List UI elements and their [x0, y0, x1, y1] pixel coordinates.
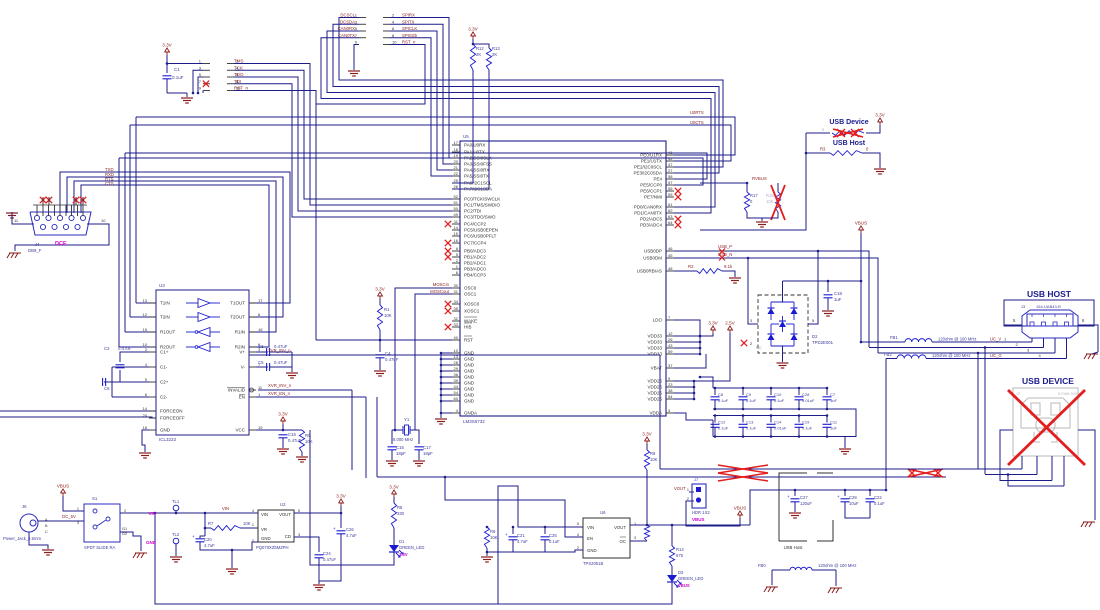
svg-text:GND: GND — [146, 540, 157, 545]
svg-text:10: 10 — [454, 348, 459, 353]
svg-text:49: 49 — [454, 212, 459, 217]
svg-text:14: 14 — [143, 406, 148, 411]
svg-text:120uF: 120uF — [800, 501, 812, 506]
svg-text:PE3/I2C0SDA: PE3/I2C0SDA — [633, 171, 662, 176]
svg-text:C28: C28 — [802, 392, 810, 397]
svg-text:10: 10 — [392, 40, 397, 45]
svg-text:R12: R12 — [476, 46, 484, 51]
svg-text:FORCEON: FORCEON — [160, 409, 183, 414]
svg-text:PA0/U0RX: PA0/U0RX — [464, 143, 485, 148]
svg-text:C13: C13 — [746, 420, 754, 425]
svg-text:18: 18 — [143, 425, 148, 430]
svg-text:PD1/CAN0TX: PD1/CAN0TX — [634, 211, 662, 216]
svg-text:XOSC1: XOSC1 — [464, 309, 480, 314]
svg-text:VOUT: VOUT — [674, 486, 686, 491]
svg-text:R6: R6 — [650, 451, 656, 456]
svg-text:VDD33: VDD33 — [647, 346, 662, 351]
svg-text:10K: 10K — [490, 535, 498, 540]
svg-text:17: 17 — [258, 298, 263, 303]
svg-text:12: 12 — [143, 312, 148, 317]
svg-text:22: 22 — [454, 171, 459, 176]
svg-text:U0RTS: U0RTS — [690, 110, 704, 115]
svg-text:C6: C6 — [104, 386, 110, 391]
svg-text:D3: D3 — [678, 570, 684, 575]
svg-text:VIN: VIN — [261, 512, 268, 517]
svg-text:0.1uF: 0.1uF — [802, 426, 813, 431]
svg-text:60: 60 — [454, 396, 459, 401]
svg-text:PB0/ADC3: PB0/ADC3 — [464, 249, 486, 254]
svg-text:VDD33: VDD33 — [647, 340, 662, 345]
svg-text:C17: C17 — [423, 445, 431, 450]
svg-text:C8: C8 — [718, 392, 724, 397]
svg-text:C22: C22 — [874, 495, 882, 500]
svg-text:PA2/SSI0CLK: PA2/SSI0CLK — [464, 156, 492, 161]
svg-text:+: + — [787, 494, 790, 499]
svg-text:0.1uF: 0.1uF — [172, 75, 184, 80]
svg-text:LDO: LDO — [653, 318, 663, 323]
svg-text:0.1uF: 0.1uF — [874, 501, 885, 506]
svg-text:GND: GND — [261, 536, 271, 541]
svg-text:21: 21 — [454, 165, 459, 170]
svg-text:26: 26 — [454, 184, 459, 189]
svg-text:C27: C27 — [800, 495, 808, 500]
svg-text:10K: 10K — [384, 313, 392, 318]
svg-text:U0CTS: U0CTS — [690, 120, 704, 125]
svg-text:32: 32 — [454, 316, 459, 321]
svg-text:T2OUT: T2OUT — [230, 315, 245, 320]
svg-text:330: 330 — [397, 511, 405, 516]
svg-text:UC_G: UC_G — [990, 353, 1002, 358]
svg-text:GND: GND — [587, 548, 597, 553]
svg-text:34: 34 — [454, 299, 459, 304]
svg-text:C20: C20 — [204, 537, 212, 542]
svg-text:10K: 10K — [243, 521, 251, 526]
svg-text:SPITX: SPITX — [402, 19, 415, 24]
svg-text:+: + — [333, 526, 336, 531]
svg-text:D2: D2 — [812, 334, 818, 339]
svg-text:GREEN_LED: GREEN_LED — [399, 545, 424, 550]
svg-text:120ohm @ 100 MHz: 120ohm @ 100 MHz — [932, 353, 970, 358]
svg-text:DCSCL: DCSCL — [340, 13, 355, 18]
svg-text:HDR 1X2: HDR 1X2 — [692, 510, 710, 515]
svg-text:4.7uF: 4.7uF — [204, 543, 215, 548]
svg-text:C21: C21 — [517, 533, 525, 538]
svg-text:19: 19 — [258, 425, 263, 430]
svg-text:28: 28 — [454, 360, 459, 365]
svg-text:C3: C3 — [258, 344, 264, 349]
svg-text:GND: GND — [464, 369, 475, 374]
svg-text:25: 25 — [454, 178, 459, 183]
svg-text:PB4/CCP3: PB4/CCP3 — [464, 273, 486, 278]
svg-text:GND: GND — [464, 363, 475, 368]
svg-text:GND: GND — [464, 357, 475, 362]
svg-text:PD0/CAN0RX: PD0/CAN0RX — [634, 205, 662, 210]
svg-text:R14: R14 — [676, 547, 684, 552]
svg-text:15: 15 — [143, 327, 148, 332]
svg-text:G1: G1 — [122, 527, 127, 531]
svg-text:TL2: TL2 — [172, 532, 180, 537]
svg-text:29: 29 — [454, 366, 459, 371]
svg-text:2K: 2K — [492, 52, 497, 57]
svg-text:1: 1 — [77, 507, 79, 511]
svg-text:PA3/SSI0FSS: PA3/SSI0FSS — [464, 162, 492, 167]
svg-text:USB HOST: USB HOST — [1027, 289, 1072, 299]
svg-text:SPISSb: SPISSb — [402, 33, 418, 38]
svg-text:PC7/CCP4: PC7/CCP4 — [464, 241, 487, 246]
svg-text:58: 58 — [668, 174, 673, 179]
svg-text:26: 26 — [668, 337, 673, 342]
svg-text:C7: C7 — [830, 392, 836, 397]
svg-text:2: 2 — [124, 509, 126, 513]
svg-text:GND: GND — [464, 393, 475, 398]
svg-text:VBUS: VBUS — [855, 221, 868, 226]
svg-text:TPD2E001: TPD2E001 — [812, 340, 834, 345]
svg-text:10: 10 — [101, 218, 106, 223]
svg-text:C26: C26 — [346, 527, 354, 532]
svg-text:VBUS: VBUS — [678, 583, 690, 588]
svg-text:2: 2 — [577, 546, 579, 550]
svg-text:U2: U2 — [280, 502, 286, 507]
svg-text:120ohm @ 100 MHz: 120ohm @ 100 MHz — [938, 337, 976, 342]
svg-text:DB9_F: DB9_F — [28, 248, 42, 253]
svg-text:27: 27 — [668, 168, 673, 173]
svg-text:R2: R2 — [688, 264, 694, 269]
svg-text:TDI: TDI — [234, 79, 241, 84]
svg-text:30: 30 — [454, 283, 459, 288]
svg-text:14: 14 — [454, 225, 459, 230]
svg-text:10K: 10K — [650, 457, 658, 462]
svg-text:PC2/TDI: PC2/TDI — [464, 209, 481, 214]
svg-text:GND: GND — [160, 428, 171, 433]
svg-text:61: 61 — [668, 202, 673, 207]
svg-text:VIN: VIN — [148, 511, 156, 516]
svg-text:PC0/TCK/SWCLK: PC0/TCK/SWCLK — [464, 197, 500, 202]
svg-text:3.3V: 3.3V — [399, 552, 408, 557]
svg-text:56: 56 — [668, 186, 673, 191]
svg-text:VDD33: VDD33 — [647, 334, 662, 339]
svg-text:31: 31 — [454, 289, 459, 294]
svg-text:3.3V: 3.3V — [708, 321, 718, 326]
svg-text:C12: C12 — [718, 420, 726, 425]
svg-text:62: 62 — [668, 208, 673, 213]
svg-text:VCC: VCC — [235, 428, 245, 433]
svg-text:VIN: VIN — [587, 525, 594, 530]
svg-text:U3: U3 — [159, 283, 165, 288]
svg-text:3: 3 — [634, 536, 636, 540]
svg-text:42: 42 — [668, 156, 673, 161]
svg-text:DC_5V: DC_5V — [62, 514, 76, 519]
svg-text:43: 43 — [668, 343, 673, 348]
svg-text:G2: G2 — [122, 532, 127, 536]
svg-text:T1OUT: T1OUT — [230, 301, 245, 306]
svg-text:C1: C1 — [174, 67, 180, 72]
svg-text:RST_n: RST_n — [234, 86, 249, 91]
svg-text:C24: C24 — [323, 551, 331, 556]
svg-text:5: 5 — [577, 522, 579, 526]
svg-text:PA5/SSI0TX: PA5/SSI0TX — [464, 174, 489, 179]
svg-text:3.3V: 3.3V — [375, 287, 385, 292]
svg-text:C5: C5 — [258, 360, 264, 365]
svg-text:PC5/USB0EPEN: PC5/USB0EPEN — [464, 228, 498, 233]
svg-text:XOSC0: XOSC0 — [464, 302, 480, 307]
svg-text:PE7/NMI: PE7/NMI — [644, 195, 662, 200]
svg-text:0.1uF: 0.1uF — [549, 539, 560, 544]
svg-text:4: 4 — [577, 533, 579, 537]
svg-text:GREEN_LED: GREEN_LED — [678, 576, 703, 581]
svg-text:CAN0TX: CAN0TX — [338, 33, 355, 38]
svg-text:UC_V: UC_V — [990, 337, 1001, 342]
svg-text:41: 41 — [668, 150, 673, 155]
svg-text:INVALID: INVALID — [228, 388, 246, 393]
svg-text:2.5V: 2.5V — [725, 321, 735, 326]
svg-text:PD2/ADC5: PD2/ADC5 — [640, 217, 663, 222]
svg-text:0.47uF: 0.47uF — [274, 360, 288, 365]
svg-text:5: 5 — [298, 509, 300, 513]
svg-text:USB Host: USB Host — [833, 140, 866, 147]
svg-text:SPIRX: SPIRX — [402, 13, 415, 18]
svg-text:GND: GND — [464, 399, 475, 404]
svg-text:40: 40 — [454, 335, 459, 340]
svg-text:PE1/U1TX: PE1/U1TX — [641, 159, 662, 164]
svg-text:C2: C2 — [104, 346, 110, 351]
svg-text:VOUT: VOUT — [279, 512, 291, 517]
svg-text:GNDA: GNDA — [464, 411, 477, 416]
svg-text:SPDT SLIDE RA: SPDT SLIDE RA — [84, 545, 116, 550]
svg-text:39: 39 — [454, 378, 459, 383]
svg-text:0.01uF: 0.01uF — [774, 426, 787, 431]
svg-text:EN: EN — [587, 536, 593, 541]
svg-text:TDO: TDO — [234, 72, 244, 77]
svg-text:3.3V: 3.3V — [162, 43, 172, 48]
svg-text:R1IN: R1IN — [235, 330, 245, 335]
svg-text:1uF: 1uF — [834, 297, 842, 302]
svg-text:35: 35 — [454, 306, 459, 311]
svg-text:OSC1: OSC1 — [464, 292, 477, 297]
svg-text:8.000 MHz: 8.000 MHz — [393, 437, 413, 442]
svg-text:J6: J6 — [22, 504, 27, 509]
svg-text:37: 37 — [668, 363, 673, 368]
svg-text:15: 15 — [454, 231, 459, 236]
svg-text:63: 63 — [668, 214, 673, 219]
svg-text:3.3V: 3.3V — [389, 485, 399, 490]
svg-text:Y1: Y1 — [404, 417, 410, 422]
svg-text:10K: 10K — [766, 199, 774, 204]
svg-text:S1: S1 — [92, 496, 98, 501]
svg-text:DCE: DCE — [55, 241, 67, 247]
svg-text:154-UAB43-R: 154-UAB43-R — [1036, 304, 1061, 309]
svg-text:R1OUT: R1OUT — [160, 330, 176, 335]
svg-text:C28: C28 — [849, 495, 857, 500]
svg-text:PA4/SSI0RX: PA4/SSI0RX — [464, 168, 489, 173]
svg-text:C1-: C1- — [160, 365, 168, 370]
svg-text:NC: NC — [756, 345, 762, 350]
svg-text:PD3/ADC4: PD3/ADC4 — [640, 223, 663, 228]
svg-text:16: 16 — [258, 327, 263, 332]
svg-text:USB DEVICE: USB DEVICE — [1022, 376, 1074, 386]
svg-text:52: 52 — [454, 194, 459, 199]
svg-text:PB2/ADC1: PB2/ADC1 — [464, 261, 486, 266]
svg-text:RVBUS: RVBUS — [752, 176, 767, 181]
svg-text:USB0RBIAS: USB0RBIAS — [637, 269, 662, 274]
svg-text:FB2: FB2 — [884, 352, 892, 357]
svg-text:XVR_INV_n: XVR_INV_n — [268, 383, 292, 388]
svg-text:TCK: TCK — [234, 65, 243, 70]
svg-text:4: 4 — [252, 509, 254, 513]
svg-text:C1+: C1+ — [160, 350, 169, 355]
svg-text:1uF: 1uF — [830, 398, 837, 403]
svg-text:U5: U5 — [463, 134, 469, 139]
svg-text:0.01uF: 0.01uF — [802, 398, 815, 403]
svg-text:Power_Jack_2.5mm: Power_Jack_2.5mm — [3, 536, 41, 541]
svg-text:C10: C10 — [774, 392, 782, 397]
svg-text:HIB: HIB — [464, 325, 472, 330]
svg-text:3.3V: 3.3V — [468, 27, 478, 32]
svg-text:DCSDA: DCSDA — [340, 19, 355, 24]
svg-text:R17: R17 — [750, 193, 758, 198]
svg-text:R9: R9 — [490, 529, 496, 534]
svg-text:C: C — [45, 530, 48, 534]
svg-text:20: 20 — [454, 159, 459, 164]
svg-text:PC3/TDO/SWO: PC3/TDO/SWO — [464, 215, 496, 220]
svg-text:SPICLK: SPICLK — [402, 26, 417, 31]
svg-text:67068-9000: 67068-9000 — [1058, 391, 1080, 396]
svg-text:ICL3223: ICL3223 — [159, 437, 177, 442]
svg-text:120ohm @ 100 MHz: 120ohm @ 100 MHz — [818, 563, 856, 568]
svg-text:44: 44 — [454, 384, 459, 389]
svg-text:57: 57 — [668, 180, 673, 185]
svg-text:OSC0: OSC0 — [464, 286, 477, 291]
svg-text:1: 1 — [252, 523, 254, 527]
svg-text:23: 23 — [668, 382, 673, 387]
svg-text:18pF: 18pF — [423, 451, 433, 456]
svg-text:MOSCout: MOSCout — [430, 289, 450, 294]
svg-text:0.47uF: 0.47uF — [385, 357, 399, 362]
svg-text:48: 48 — [668, 266, 673, 271]
svg-text:R8: R8 — [397, 505, 403, 510]
svg-text:3: 3 — [77, 521, 79, 525]
svg-text:VOUT: VOUT — [614, 525, 626, 530]
svg-text:36: 36 — [454, 372, 459, 377]
svg-text:CAN0RX: CAN0RX — [338, 26, 356, 31]
svg-text:VBUS: VBUS — [692, 517, 705, 522]
svg-text:T1IN: T1IN — [160, 301, 170, 306]
svg-text:C19: C19 — [802, 420, 810, 425]
svg-text:PE2/I2C0SCL: PE2/I2C0SCL — [634, 165, 663, 170]
svg-text:LM3S5732: LM3S5732 — [463, 419, 485, 424]
svg-text:VBUS: VBUS — [57, 484, 70, 489]
svg-text:C15: C15 — [288, 432, 296, 437]
svg-text:RST: RST — [464, 338, 473, 343]
svg-text:D1: D1 — [399, 539, 405, 544]
svg-text:VR: VR — [261, 527, 267, 532]
svg-text:R13: R13 — [492, 46, 500, 51]
svg-text:PC6/USB0PFLT: PC6/USB0PFLT — [464, 234, 497, 239]
svg-text:U6: U6 — [600, 510, 606, 515]
svg-text:54: 54 — [668, 394, 673, 399]
svg-text:GND: GND — [464, 387, 475, 392]
svg-text:R18: R18 — [766, 193, 774, 198]
svg-text:1: 1 — [687, 488, 689, 492]
svg-text:51: 51 — [454, 200, 459, 205]
svg-text:0.1uF: 0.1uF — [718, 426, 729, 431]
svg-text:VBUS: VBUS — [734, 506, 747, 511]
svg-text:PA1/U0TX: PA1/U0TX — [464, 150, 485, 155]
svg-text:4.7uF: 4.7uF — [346, 533, 357, 538]
svg-text:USB0DM: USB0DM — [643, 256, 662, 261]
svg-text:2: 2 — [687, 497, 689, 501]
svg-text:0: 0 — [822, 128, 824, 132]
svg-text:9.1k: 9.1k — [724, 264, 733, 269]
svg-text:PB3/ADC0: PB3/ADC0 — [464, 267, 486, 272]
svg-text:USB0DP: USB0DP — [644, 249, 662, 254]
svg-text:C16: C16 — [396, 445, 404, 450]
svg-text:EN: EN — [239, 395, 245, 400]
svg-text:XVR_INV_n: XVR_INV_n — [268, 348, 291, 353]
svg-text:17: 17 — [454, 140, 459, 145]
svg-text:46: 46 — [668, 246, 673, 251]
svg-text:TL1: TL1 — [172, 499, 180, 504]
svg-text:R1: R1 — [384, 307, 390, 312]
svg-text:PE5/CCP0: PE5/CCP0 — [640, 183, 662, 188]
svg-text:PB1/ADC2: PB1/ADC2 — [464, 255, 486, 260]
svg-text:18pF: 18pF — [396, 451, 406, 456]
svg-text:GND: GND — [464, 381, 475, 386]
svg-text:2K: 2K — [476, 52, 481, 57]
svg-text:R7: R7 — [208, 521, 214, 526]
svg-text:47: 47 — [668, 162, 673, 167]
svg-text:33: 33 — [454, 322, 459, 327]
svg-text:0.47uF: 0.47uF — [118, 346, 132, 351]
svg-text:C14: C14 — [774, 420, 782, 425]
svg-text:0.1uF: 0.1uF — [774, 398, 785, 403]
svg-text:USB Device: USB Device — [829, 119, 868, 126]
svg-text:+: + — [192, 534, 195, 539]
svg-text:OC: OC — [620, 539, 626, 544]
svg-text:3: 3 — [298, 533, 300, 537]
svg-text:4.7uF: 4.7uF — [517, 539, 528, 544]
svg-text:FB0: FB0 — [758, 563, 766, 568]
svg-text:38: 38 — [668, 388, 673, 393]
svg-text:19: 19 — [454, 153, 459, 158]
svg-text:10uF: 10uF — [849, 501, 859, 506]
svg-text:GND: GND — [464, 375, 475, 380]
svg-text:C11: C11 — [830, 420, 838, 425]
svg-text:PE6/CCP1: PE6/CCP1 — [640, 189, 662, 194]
svg-text:3.3V: 3.3V — [278, 412, 288, 417]
svg-text:USB Host: USB Host — [784, 545, 804, 550]
svg-text:PC4/CCP2: PC4/CCP2 — [464, 222, 487, 227]
svg-text:59: 59 — [668, 349, 673, 354]
svg-text:CTS: CTS — [105, 181, 114, 186]
svg-text:MOSCin: MOSCin — [433, 282, 450, 287]
svg-text:50: 50 — [454, 206, 459, 211]
svg-text:0.1uF: 0.1uF — [718, 398, 729, 403]
svg-text:54: 54 — [454, 390, 459, 395]
svg-text:PE4: PE4 — [653, 177, 662, 182]
svg-text:C25: C25 — [549, 533, 557, 538]
svg-text:USB_P: USB_P — [718, 244, 732, 249]
svg-text:VIN: VIN — [222, 506, 229, 511]
svg-text:TPS2051B: TPS2051B — [583, 561, 603, 566]
svg-text:C18: C18 — [834, 291, 842, 296]
svg-text:FORCEOFF: FORCEOFF — [160, 416, 185, 421]
svg-text:+: + — [837, 494, 840, 499]
svg-text:PC1/TMS/SWDIO: PC1/TMS/SWDIO — [464, 203, 501, 208]
svg-text:55: 55 — [668, 192, 673, 197]
svg-text:PE0/U1RX: PE0/U1RX — [640, 153, 662, 158]
svg-text:V-: V- — [241, 365, 246, 370]
svg-text:0.1uF: 0.1uF — [746, 398, 757, 403]
